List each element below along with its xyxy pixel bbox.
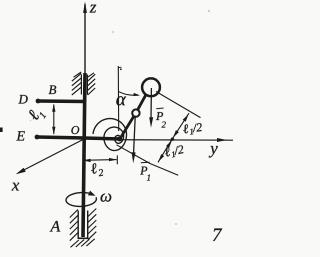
vertical reference line through pivot (117, 66, 119, 131)
big ball mass (142, 78, 160, 96)
shaft AB (wire) (83, 73, 85, 237)
node D dot (36, 99, 41, 104)
label z (90, 5, 97, 13)
omega rotation arrow (ellipse arc) (66, 193, 96, 207)
extension line from pivot (117, 145, 179, 175)
label l2 (90, 162, 104, 177)
small ball hinge (132, 109, 139, 116)
top bearing wall left (80, 75, 82, 95)
angle alpha arc (119, 92, 139, 96)
label E (16, 131, 24, 140)
top bearing hatching right (88, 73, 96, 95)
bottom bearing cup right wall (87, 211, 89, 239)
ground hatching below cup (71, 239, 95, 248)
bottom bearing cup left wall (77, 211, 79, 239)
label alpha (116, 96, 126, 105)
label y (209, 146, 218, 157)
page number 7 (213, 229, 222, 241)
label D (18, 95, 27, 104)
l2 end tick (116, 155, 118, 164)
pivot knot (117, 136, 122, 141)
pendulum rod lower segment (wire) (120, 114, 136, 140)
junction blob on y-axis (171, 138, 174, 141)
node E dot (35, 135, 40, 140)
force vector P2 (150, 88, 152, 119)
pendulum rod upper segment (wire) (136, 95, 146, 114)
label B (49, 85, 57, 94)
dimension line l1/2 (parallel to rod) (158, 113, 189, 162)
label omega (101, 194, 112, 202)
spiral spring at pivot (93, 119, 127, 151)
extension line from big ball (156, 92, 201, 118)
bottom bearing hatching left (70, 210, 78, 241)
tick at top of reference line (118, 66, 121, 68)
label P2 (156, 107, 163, 110)
dimension l1 line (53, 105, 55, 135)
top bearing hatching left (72, 72, 81, 95)
label O (71, 126, 79, 134)
label l1 (27, 106, 46, 124)
dimension l2 line (83, 159, 117, 162)
y-axis (121, 139, 233, 142)
label l1/2 lower (164, 144, 185, 158)
label x (12, 183, 20, 191)
force vector P1 (134, 117, 136, 153)
scan speckles (208, 10, 210, 12)
scan artifact left edge (0, 128, 3, 133)
label P1 (141, 161, 150, 164)
label A (50, 221, 61, 232)
crank O to pivot (wire) (84, 138, 121, 139)
bottom bearing cup bottom (78, 237, 89, 239)
z-axis (84, 4, 86, 74)
rod EO (wire) (37, 137, 85, 138)
x-axis (18, 139, 84, 173)
bottom bearing hatching right (88, 209, 96, 240)
label l1/2 upper (183, 122, 203, 135)
top bearing wall right (86, 75, 88, 95)
rod BD (wire) (38, 99, 86, 103)
